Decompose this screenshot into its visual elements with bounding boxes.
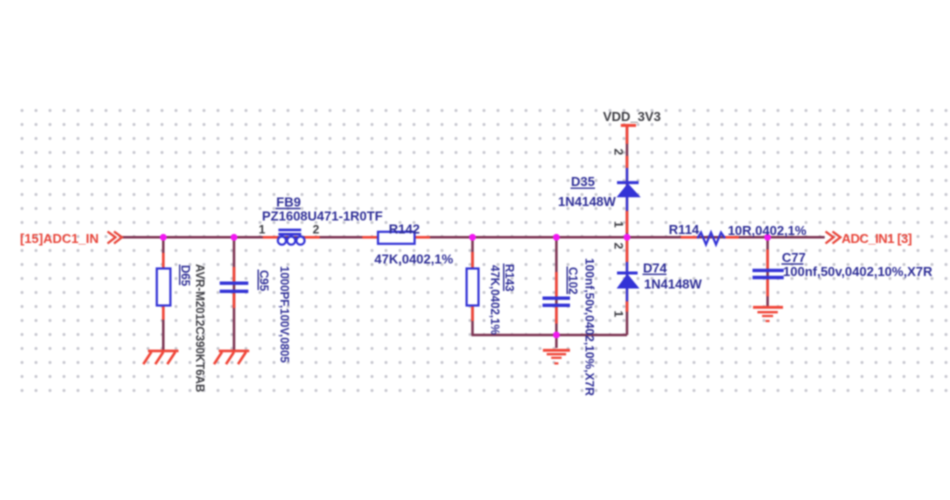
svg-text:2: 2 bbox=[612, 243, 626, 250]
svg-text:D74: D74 bbox=[643, 260, 668, 275]
svg-text:[15]ADC1_IN: [15]ADC1_IN bbox=[20, 231, 99, 246]
svg-text:100nf,50v,0402,10%,X7R: 100nf,50v,0402,10%,X7R bbox=[783, 264, 933, 279]
svg-text:10R,0402,1%: 10R,0402,1% bbox=[728, 223, 807, 238]
svg-text:1: 1 bbox=[612, 221, 626, 228]
svg-text:ADC_IN1 [3]: ADC_IN1 [3] bbox=[842, 231, 912, 246]
svg-text:47K,0402,1%: 47K,0402,1% bbox=[374, 251, 453, 266]
svg-text:FB9: FB9 bbox=[276, 195, 301, 210]
svg-text:100nf,50v,0402,10%,X7R: 100nf,50v,0402,10%,X7R bbox=[583, 258, 597, 396]
svg-text:D35: D35 bbox=[571, 174, 595, 189]
svg-text:PZ1608U471-1R0TF: PZ1608U471-1R0TF bbox=[262, 208, 383, 223]
svg-text:R114: R114 bbox=[669, 222, 700, 237]
svg-text:R142: R142 bbox=[389, 221, 420, 236]
svg-text:AVR-M2012C390KT6AB: AVR-M2012C390KT6AB bbox=[193, 264, 205, 392]
svg-text:2: 2 bbox=[313, 222, 320, 236]
svg-text:1N4148W: 1N4148W bbox=[644, 277, 703, 292]
svg-text:2: 2 bbox=[612, 149, 626, 156]
svg-text:1N4148W: 1N4148W bbox=[558, 194, 617, 209]
svg-text:1000PF,100V,0805: 1000PF,100V,0805 bbox=[278, 266, 290, 363]
svg-text:1: 1 bbox=[259, 222, 266, 236]
svg-text:C77: C77 bbox=[782, 250, 806, 265]
svg-text:47K,0402,1%: 47K,0402,1% bbox=[488, 265, 500, 335]
svg-text:1: 1 bbox=[612, 311, 626, 318]
svg-text:VDD_3V3: VDD_3V3 bbox=[603, 109, 661, 124]
